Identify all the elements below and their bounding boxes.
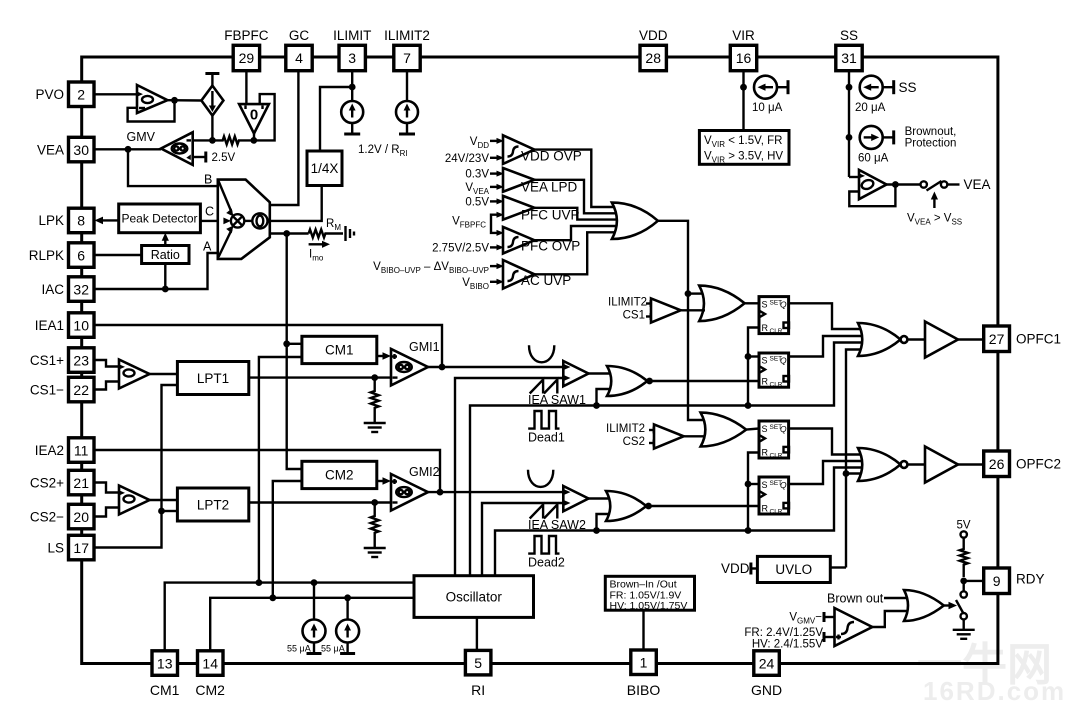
terminal bar VDD <box>749 563 752 575</box>
svg-text:CS2+: CS2+ <box>30 475 64 490</box>
pin 9 RDY <box>984 568 1045 594</box>
pin 17 LS <box>47 535 94 560</box>
pin 1 BIBO <box>627 650 661 698</box>
wire GMI2 out <box>428 491 563 493</box>
node ratio-IAC junction <box>162 286 169 293</box>
node OR2m out <box>645 503 652 510</box>
node SS1 <box>846 84 853 91</box>
wire SS to clamp amp <box>849 176 859 178</box>
svg-text:LS: LS <box>47 540 64 555</box>
buffer OUT1 <box>925 322 958 358</box>
wire pin30 VEA line <box>94 148 161 150</box>
svg-text:21: 21 <box>73 475 89 491</box>
svg-text:R: R <box>762 503 769 513</box>
node RDY <box>960 578 967 585</box>
svg-text:CM1: CM1 <box>325 343 354 358</box>
terminal bar FR/HV <box>823 632 826 642</box>
OR gate fault1 <box>699 286 744 322</box>
resistor RM <box>309 230 343 238</box>
svg-text:14: 14 <box>202 655 218 671</box>
svg-text:Peak Detector: Peak Detector <box>121 212 197 226</box>
arrow Imo <box>309 241 330 263</box>
wire CM1 out to GMI1 (arrow) <box>377 352 391 360</box>
wire VDD bar to UVLO <box>751 567 758 569</box>
wire diamond to node <box>211 116 213 141</box>
block VVIR thresholds <box>699 131 789 165</box>
svg-text:23: 23 <box>73 352 89 368</box>
wire pin11 IEA2 net <box>94 450 440 492</box>
svg-text:GC: GC <box>289 28 310 43</box>
wire GC amp tip to node <box>253 134 255 142</box>
wire pin23 to CS1 amp <box>94 360 119 367</box>
wire CM2 out to GMI2 (arrow) <box>377 477 391 485</box>
svg-text:GND: GND <box>751 682 782 698</box>
op-amp CS2 <box>119 486 150 515</box>
svg-text:S: S <box>762 424 768 434</box>
svg-text:S: S <box>762 480 768 490</box>
arrow OR-RDY to switch <box>944 602 957 610</box>
node CM2 riser <box>269 594 276 601</box>
svg-text:4: 4 <box>295 50 303 66</box>
svg-text:GMV: GMV <box>127 130 156 144</box>
pin 16 VIR <box>730 28 756 71</box>
comparator ILIMIT2/CS1 <box>646 298 681 322</box>
svg-text:SS: SS <box>899 80 917 95</box>
svg-text:VIR: VIR <box>732 28 755 43</box>
svg-text:13: 13 <box>157 655 173 671</box>
svg-text:29: 29 <box>239 50 255 66</box>
svg-text:20: 20 <box>73 509 89 525</box>
pin 14 CM2 <box>195 651 225 698</box>
node Dead1-OR1m <box>593 402 600 409</box>
svg-text:ILIMIT: ILIMIT <box>333 28 371 43</box>
switch RDY <box>956 581 967 620</box>
wire latch3 Q to NOR2 <box>789 429 864 455</box>
svg-text:Q: Q <box>780 424 787 434</box>
OR gate PWM1 <box>607 366 647 396</box>
wire pin21 to CS2 amp <box>94 483 119 493</box>
node CM2 src tap <box>344 594 351 601</box>
glyph arc U ch2 <box>528 470 553 487</box>
pin 31 SS <box>836 28 862 71</box>
block 1/4X <box>307 151 342 186</box>
glyph Dead1 pulses <box>528 411 559 429</box>
OR gate fault (5 input) <box>612 203 658 239</box>
block Ratio <box>142 246 189 264</box>
svg-text:R: R <box>762 377 769 387</box>
current source 55uA-1 <box>287 583 326 654</box>
svg-text:HV: 1.05V/1.75V: HV: 1.05V/1.75V <box>610 600 688 612</box>
pin 27 OPFC1 <box>984 326 1061 352</box>
wire BIBO box to pin1 <box>642 610 644 650</box>
block CM1 <box>302 336 377 363</box>
wire pin3 ILIMIT to 1/4X <box>320 71 352 151</box>
svg-text:26: 26 <box>989 456 1005 472</box>
svg-text:Dead1: Dead1 <box>528 431 565 445</box>
wire ratio to peak detector (arrow up) <box>162 233 169 246</box>
svg-text:LPT1: LPT1 <box>197 371 229 386</box>
arrow VVEA>VSS <box>907 192 962 227</box>
wire CM1 riser to CM1 box <box>259 357 302 583</box>
wire pin6 to ratio <box>94 254 142 256</box>
wire latch1 R / latch2 S chain <box>748 328 759 406</box>
glyph sawtooth SAW1 <box>530 380 558 394</box>
svg-text:GMI1: GMI1 <box>409 340 440 354</box>
resistor R-GMI2 to ground <box>364 503 386 558</box>
svg-text:SS: SS <box>840 28 858 43</box>
pin 4 GC <box>286 28 312 71</box>
svg-text:IAC: IAC <box>41 282 64 297</box>
comparator brownout <box>835 608 873 646</box>
wire pin22 to CS1 amp <box>94 382 119 390</box>
terminal 2.5V <box>206 152 236 165</box>
pin 24 GND <box>751 651 782 698</box>
op-amp buffer A1 (PVO follower) <box>137 85 168 113</box>
node VIR <box>740 84 747 91</box>
svg-text:10 μA: 10 μA <box>752 102 783 114</box>
wire node to latch4 S <box>748 483 759 485</box>
node R1 tap <box>371 374 378 381</box>
wire NOR1 to buffer1 <box>907 338 925 340</box>
wire OR1m out to latch2 R <box>647 380 759 382</box>
svg-text:11: 11 <box>74 442 89 458</box>
wire ratio to IAC line <box>164 264 166 290</box>
svg-text:UVLO: UVLO <box>775 562 812 577</box>
wire node to CM1 <box>287 343 302 345</box>
NOR gate OUT1 <box>858 323 907 356</box>
wire SAW1 to PWM1 <box>455 378 563 576</box>
svg-text:A: A <box>203 240 212 254</box>
svg-text:Oscillator: Oscillator <box>446 590 503 605</box>
latch SR3 <box>759 421 789 459</box>
comparator PWM1 <box>563 361 589 386</box>
comparator VDD OVP <box>490 135 582 164</box>
current source 10uA <box>752 76 788 114</box>
svg-text:28: 28 <box>645 50 661 66</box>
wire multiplier top output to pin4 GC <box>270 71 299 205</box>
svg-text:0: 0 <box>250 107 258 124</box>
terminal 5V circle <box>961 531 967 537</box>
svg-text:CM2: CM2 <box>195 682 225 698</box>
svg-text:VDD: VDD <box>721 561 750 576</box>
current source 20uA <box>855 76 894 114</box>
svg-text:Dead2: Dead2 <box>528 556 565 570</box>
current source I-ILIMIT2 <box>396 71 418 134</box>
glyph Dead2 pulses <box>528 536 559 554</box>
op-amp GMV (left pointing gm amp) <box>161 132 193 165</box>
wire PWM1 to OR <box>589 372 612 374</box>
ground RDY switch <box>953 619 975 638</box>
node diamond output <box>209 137 216 144</box>
svg-text:CLR: CLR <box>770 508 783 515</box>
svg-text:CLR: CLR <box>770 382 783 389</box>
node VEA <box>125 146 132 153</box>
node clamp out <box>892 181 899 188</box>
svg-text:OPFC2: OPFC2 <box>1016 457 1061 472</box>
pin 30 VEA <box>37 137 94 162</box>
multiplier MUL1 <box>218 180 270 259</box>
pin 22 CS1- <box>30 377 94 402</box>
svg-text:RI: RI <box>471 682 485 698</box>
wire LPT1 out <box>249 376 391 378</box>
block CM2 <box>302 461 377 488</box>
block LPT1 <box>177 362 248 395</box>
svg-text:CS1+: CS1+ <box>30 353 64 368</box>
svg-text:IEA1: IEA1 <box>35 318 64 333</box>
svg-text:7: 7 <box>403 50 411 66</box>
svg-text:17: 17 <box>73 540 89 556</box>
svg-text:20 μA: 20 μA <box>855 102 886 114</box>
latch SR1 <box>759 297 789 335</box>
watermark <box>917 639 1066 703</box>
wire pin29 to GC amp <box>245 71 247 104</box>
svg-text:FBPFC: FBPFC <box>224 28 269 43</box>
wire FR/HV bar to comp <box>824 636 835 638</box>
pin 6 RLPK <box>29 243 94 267</box>
svg-text:CLR: CLR <box>770 328 783 335</box>
node Dead1-latch <box>745 402 752 409</box>
svg-text:R: R <box>762 447 769 457</box>
block UVLO <box>757 556 830 582</box>
wire Dead1 row <box>470 343 865 576</box>
pin 10 IEA1 <box>35 313 94 338</box>
svg-text:CLR: CLR <box>770 452 783 459</box>
wire buffer feedback <box>128 100 175 121</box>
wire CS1 to LPT1 <box>150 373 178 375</box>
svg-text:ILIMIT2: ILIMIT2 <box>606 423 645 435</box>
comparator PFC OVP <box>490 227 580 254</box>
svg-text:C: C <box>205 205 214 219</box>
svg-text:0.3V: 0.3V <box>465 169 489 181</box>
svg-text:Brown out: Brown out <box>827 592 884 606</box>
node LS-LPT2 <box>158 508 165 515</box>
svg-text:BIBO: BIBO <box>627 682 661 698</box>
wire GMI1 out <box>428 366 563 368</box>
svg-text:RLPK: RLPK <box>29 248 64 263</box>
svg-text:24: 24 <box>759 655 775 671</box>
glyph arc U ch1 <box>529 345 554 362</box>
wire OR1 to latch1 S <box>745 302 759 304</box>
node SS2 <box>846 134 853 141</box>
svg-text:VDD: VDD <box>639 28 668 43</box>
svg-text:VEA LPD: VEA LPD <box>521 180 578 195</box>
terminal bar above diamond <box>205 74 219 86</box>
node buffer output <box>171 97 178 104</box>
node GC amp output <box>250 137 257 144</box>
node ILIMIT <box>349 84 356 91</box>
ground (RM right) <box>346 226 355 241</box>
wire PVO to buffer <box>94 93 137 95</box>
svg-text:CS2: CS2 <box>623 436 645 448</box>
wire brownout comp to OR-RDY <box>872 611 908 627</box>
wire PFC OVP out <box>534 226 618 240</box>
wire CM2 riser to CM2 box <box>273 481 302 598</box>
wire latch3 R / latch4 S chain <box>748 453 759 531</box>
node Dead2-latch <box>745 527 752 534</box>
svg-text:OPFC1: OPFC1 <box>1016 332 1061 347</box>
op-amp CS1 <box>119 360 150 389</box>
pin 29 FBPFC <box>224 28 269 71</box>
wire pin31 SS down <box>848 71 850 177</box>
wire PFC UVP out <box>534 208 618 220</box>
svg-text:Q: Q <box>780 480 787 490</box>
svg-text:Protection: Protection <box>905 138 957 150</box>
svg-text:2.75V/2.5V: 2.75V/2.5V <box>432 242 489 254</box>
svg-text:RDY: RDY <box>1016 572 1045 587</box>
pin 7 ILIMIT2 <box>384 28 430 71</box>
svg-text:5: 5 <box>474 655 482 671</box>
svg-text:CM2: CM2 <box>325 468 354 483</box>
svg-text:VEA: VEA <box>37 142 64 157</box>
pin 3 ILIMIT <box>333 28 371 71</box>
resistor R-A (between node and GC amp) <box>212 136 253 144</box>
svg-text:32: 32 <box>73 281 89 297</box>
wire latch2 Q to NOR1 <box>789 336 865 357</box>
node IEA2 <box>437 489 444 496</box>
pin 23 CS1+ <box>30 348 94 373</box>
wire Imo node down to CM1/CM2 <box>287 234 302 470</box>
block Peak Detector <box>119 204 201 233</box>
wire VEA LPD out <box>534 180 618 214</box>
wire NOR2 to buffer2 <box>907 463 925 465</box>
wire latch4 Q to NOR2 <box>789 461 865 484</box>
op-amp U-GC (inverted triangle 0) <box>239 104 269 133</box>
svg-text:CS1: CS1 <box>623 310 645 322</box>
svg-text:Q: Q <box>780 300 787 310</box>
block BIBO thresholds <box>605 576 694 612</box>
svg-text:16RD.com: 16RD.com <box>923 676 1066 703</box>
svg-text:5V: 5V <box>957 520 971 532</box>
latch SR2 <box>759 353 789 389</box>
svg-text:GMI2: GMI2 <box>409 465 440 479</box>
wire B net (VEA to multiplier B) <box>128 149 218 186</box>
wire Dead2 node to OR2m <box>597 514 610 531</box>
wire PWM2 to OR <box>589 497 611 499</box>
svg-text:55 μA: 55 μA <box>287 644 311 654</box>
current source I-ILIMIT <box>341 87 363 134</box>
buffer OUT2 <box>925 447 958 483</box>
wire GMV lower input to 2.5V <box>193 156 206 158</box>
pin 28 VDD <box>639 28 668 71</box>
switch SS-VEA <box>921 181 960 191</box>
wire CS2 to LPT2 <box>150 499 178 501</box>
svg-text:1/4X: 1/4X <box>311 161 339 176</box>
amp GMI2 <box>391 474 428 511</box>
wire CM1 pin net up <box>165 583 414 651</box>
wire SAW2 to PWM2 <box>482 503 563 576</box>
OR gate RDY <box>904 590 944 621</box>
pin 32 IAC <box>41 277 94 302</box>
terminal bar VGMV <box>823 612 826 622</box>
latch SR4 <box>759 477 789 515</box>
pin 13 CM1 <box>150 651 180 698</box>
comparator AC UVP <box>490 260 571 289</box>
wire LPT2 out <box>249 501 391 503</box>
comparator PWM2 <box>563 486 589 511</box>
svg-text:22: 22 <box>73 382 89 398</box>
svg-text:10: 10 <box>73 317 89 333</box>
wire CM2 pin net up <box>210 598 414 651</box>
svg-text:60 μA: 60 μA <box>858 153 889 165</box>
svg-text:ILIMIT2: ILIMIT2 <box>384 28 430 43</box>
node CM1 riser <box>256 579 263 586</box>
block LPT2 <box>177 488 248 521</box>
wire pin32 IAC to multiplier A <box>94 253 218 289</box>
wire OR2 to latch3 S <box>746 429 759 430</box>
pin 20 CS2- <box>30 504 94 529</box>
node R2 tap <box>371 499 378 506</box>
wire CS1 comp to OR1 <box>681 309 705 311</box>
svg-text:IEA2: IEA2 <box>35 443 64 458</box>
node OR1m out <box>646 378 653 385</box>
OR gate PWM2 <box>606 491 646 521</box>
wire UVLO out <box>830 566 846 568</box>
svg-text:VEA: VEA <box>964 177 991 192</box>
wire node to NOR2 in4 <box>846 472 863 474</box>
node latch2 S <box>745 353 752 360</box>
pin 8 LPK <box>38 208 94 233</box>
node Dead2-OR2m <box>593 527 600 534</box>
wire multiplier mid output to 1/4X <box>270 186 322 221</box>
svg-text:S: S <box>762 300 768 310</box>
wire clamp feedback <box>849 185 895 207</box>
wire UVLO rail up <box>846 350 863 568</box>
wire LS net <box>94 385 177 548</box>
wire pin16 VIR down <box>742 71 744 131</box>
pin 11 IEA2 <box>35 438 94 463</box>
svg-text:HV: 2.4/1.55V: HV: 2.4/1.55V <box>752 639 824 651</box>
wire brown out to OR-RDY <box>884 597 908 599</box>
svg-text:1: 1 <box>640 655 648 671</box>
wire LS node to LPT2 <box>162 510 178 512</box>
svg-text:16: 16 <box>736 50 752 66</box>
wire node to GMV input <box>194 139 212 141</box>
wire CS2 comp to OR2 <box>684 435 705 437</box>
svg-text:2: 2 <box>77 87 85 103</box>
wire pin10 IEA1 net <box>94 325 442 367</box>
wire VGMV bar to comp <box>824 616 835 618</box>
current source 60uA <box>858 126 894 165</box>
chip border <box>82 57 998 664</box>
node CM1 src tap <box>311 579 318 586</box>
svg-text:31: 31 <box>841 50 857 66</box>
resistor R-GMI1 to ground <box>364 378 386 432</box>
node CM1 input <box>283 340 290 347</box>
wire buffer out to diamond <box>168 99 202 102</box>
wire multiplier bottom output <box>270 232 309 234</box>
block Oscillator <box>414 576 534 618</box>
wire fault OR output <box>658 221 706 420</box>
svg-text:27: 27 <box>989 331 1005 347</box>
pin 2 PVO <box>35 82 94 107</box>
svg-text:R: R <box>762 323 769 333</box>
current source 55uA-2 <box>321 598 359 654</box>
glyph sawtooth SAW2 <box>530 505 558 519</box>
svg-text:B: B <box>204 173 212 187</box>
comparator VEA LPD <box>490 168 578 195</box>
svg-text:0.5V: 0.5V <box>465 196 489 208</box>
svg-text:Q: Q <box>780 356 787 366</box>
OR gate fault2 <box>701 413 747 447</box>
node fault to OR1 <box>685 290 692 297</box>
wire peak detector to pin8 (arrow) <box>95 217 119 225</box>
wire node to latch2 S <box>748 355 759 357</box>
wire Dead2 row <box>495 468 865 576</box>
wire AC UVP out <box>534 232 618 274</box>
wire OR2m out to latch4 R <box>646 505 759 507</box>
op-amp SS clamp <box>859 170 887 199</box>
svg-text:Ratio: Ratio <box>151 248 180 262</box>
